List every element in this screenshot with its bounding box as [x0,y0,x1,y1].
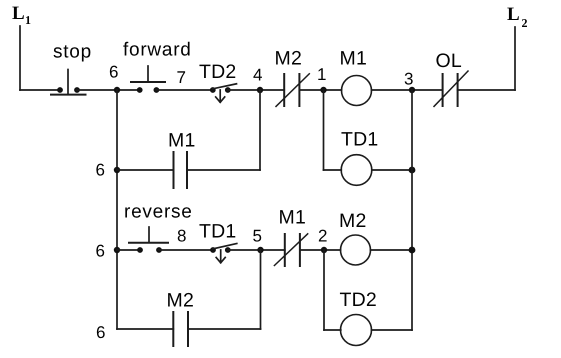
contact M1 (NC) rung2 [274,234,307,266]
wire: TD1 to M1 NC [228,249,285,251]
wire: M2 contact to node1 [299,89,341,91]
wire: node1 vertical [323,90,325,170]
wire: reverse to TD1 [159,249,213,251]
svg-text:1: 1 [317,65,326,84]
pushbutton forward (NO) [131,66,165,93]
junction dot left bus rung2 [114,247,120,253]
wire: M1 branch right [187,169,260,171]
wire: M2 coil to right bus [371,249,413,251]
coil TD1 [341,155,372,186]
svg-text:6: 6 [109,63,118,82]
coil TD2 [341,315,372,346]
svg-text:TD2: TD2 [199,61,236,83]
wire: TD2 branch right [372,329,413,331]
junction dot right bus at TD1 branch [409,167,416,174]
wire: TD1 branch right [372,169,412,171]
wire: right vertical bus x412 [411,90,413,330]
wire: left vertical bus x117 [116,90,118,329]
svg-text:5: 5 [253,227,262,246]
svg-text:M1: M1 [168,130,196,152]
coil M1 [342,76,372,106]
wire: M1 branch left [117,169,174,171]
svg-text:8: 8 [177,227,186,246]
svg-text:6: 6 [96,161,105,180]
svg-text:2: 2 [522,16,528,30]
wire: node2 vertical [323,250,325,330]
wire: OL to L2 drop [458,89,515,91]
wire: rung2 start [117,249,140,251]
svg-text:M2: M2 [167,289,195,311]
contact M2 (NC) rung1 [276,74,309,107]
junction dot right bus rung2 [409,247,416,254]
svg-text:OL: OL [436,50,462,72]
svg-text:6: 6 [96,323,105,342]
timed contact TD1 (NOTC) [210,244,237,263]
wire: M1 coil to OL [372,89,443,91]
wire: TD2 branch left [324,329,341,331]
svg-text:1: 1 [25,13,31,27]
wire: stop to forward [77,89,140,91]
svg-text:M1: M1 [279,207,307,229]
svg-text:TD1: TD1 [341,129,378,151]
contact M2 (NO) seal-in [173,312,188,346]
wire: M2 branch left [117,328,173,330]
wire: TD1 branch left [324,169,342,171]
svg-text:L: L [507,4,520,25]
svg-text:7: 7 [177,68,186,87]
wire: L1 vertical drop [19,26,21,90]
svg-text:L: L [12,3,25,24]
wire: TD2 to M2 contact [228,89,284,91]
svg-text:6: 6 [96,242,105,261]
svg-text:TD1: TD1 [199,221,236,243]
node 3 junction [409,87,415,93]
wire: node5 vertical [260,250,262,329]
svg-text:4: 4 [253,66,262,85]
pushbutton stop (NC) [51,70,86,95]
node 5 junction [257,247,263,253]
node 6 junction rung1 [114,87,120,93]
junction dot left bus at M1 branch [114,167,120,173]
wire: node4 vertical [259,90,261,170]
svg-text:TD2: TD2 [340,289,377,311]
node 4 junction [257,87,263,93]
wire: M2 branch right [188,328,261,330]
svg-text:3: 3 [404,70,413,89]
node 2 junction [321,247,327,253]
wire: L2 vertical drop [514,27,516,90]
rail label L1 [12,3,31,27]
overload contact OL (NC) [434,71,468,106]
svg-text:forward: forward [123,40,192,61]
svg-text:reverse: reverse [124,202,193,223]
timed contact TD2 (NOTC) [210,84,237,103]
wire: M1 NC to M2 coil [300,249,341,251]
pushbutton reverse (NO) [129,227,168,253]
rail label L2 [507,4,528,30]
contact M1 (NO) seal-in [174,152,188,188]
wire: rung1 left rail to stop [20,89,60,91]
svg-text:stop: stop [53,42,92,63]
node 1 junction [320,87,326,93]
svg-text:M1: M1 [340,48,368,70]
svg-text:M2: M2 [339,210,367,232]
wire: forward to TD2 [156,89,212,91]
coil M2 [341,235,371,265]
svg-text:2: 2 [318,227,327,246]
svg-text:M2: M2 [275,48,303,70]
